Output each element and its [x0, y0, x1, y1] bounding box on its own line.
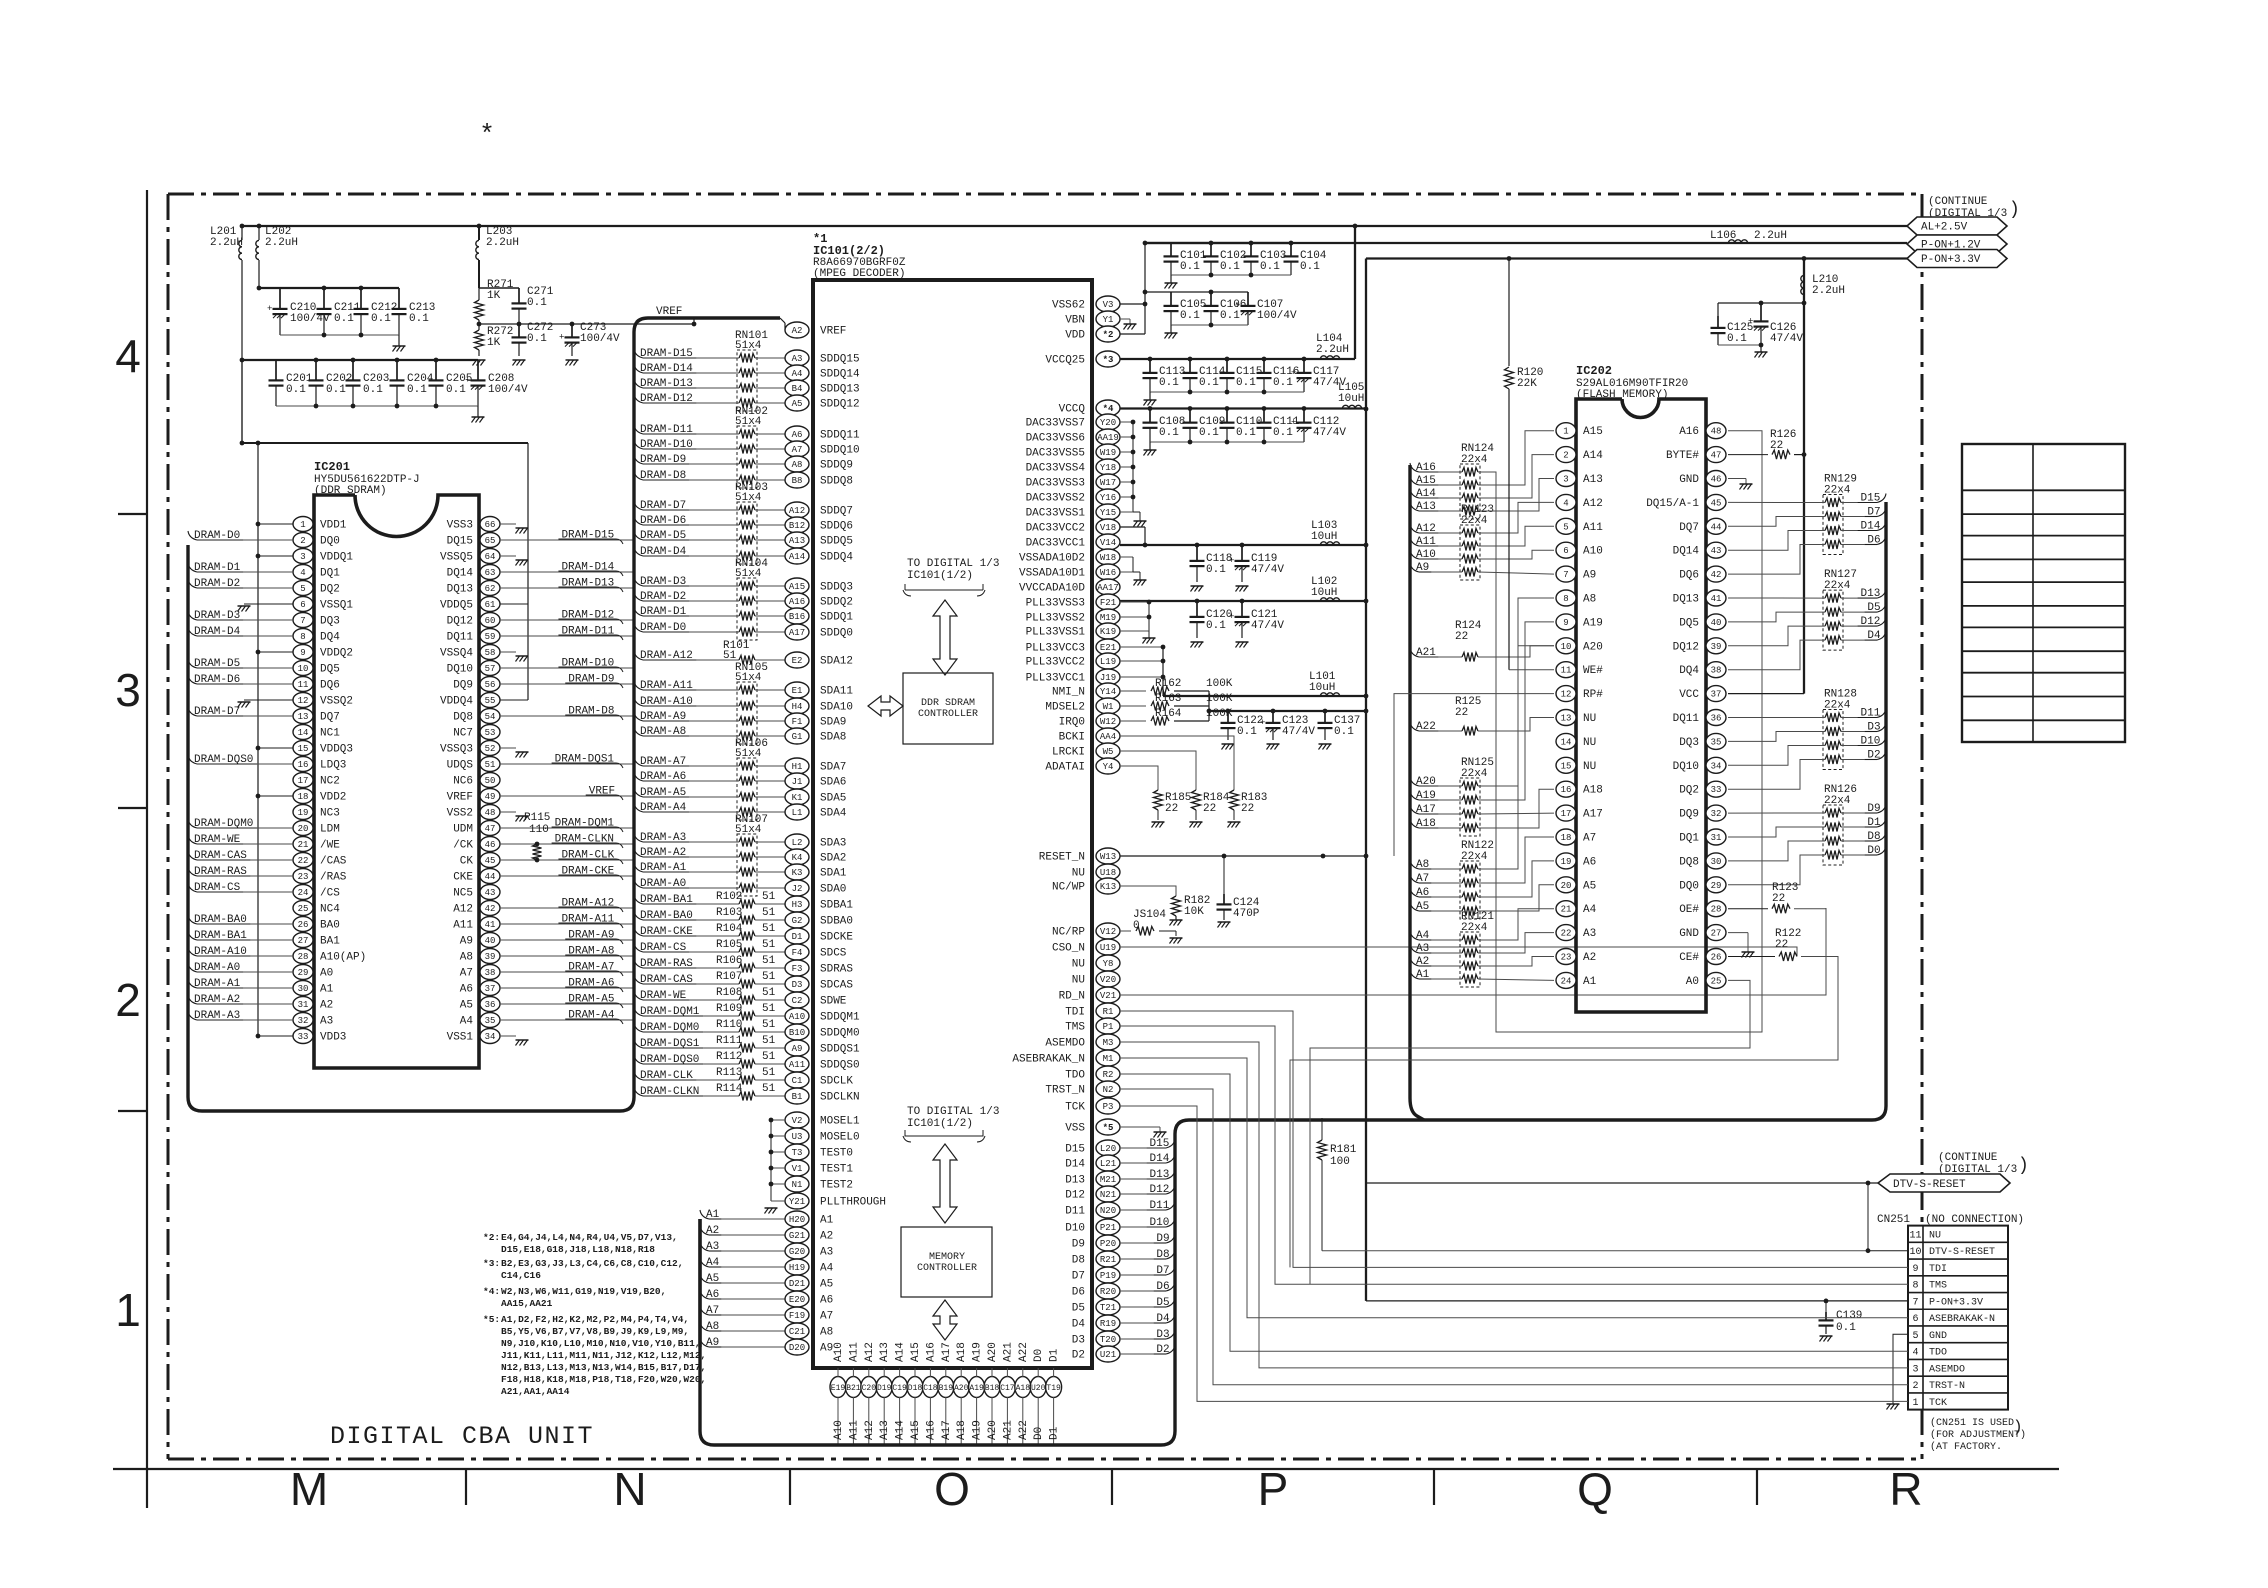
- svg-text:DQ5: DQ5: [320, 664, 340, 676]
- svg-text:2: 2: [300, 536, 305, 546]
- IC101 pin C21 A8: [785, 1323, 809, 1339]
- svg-text:16: 16: [298, 760, 309, 770]
- IC202 pin 4 A12: [1556, 494, 1576, 510]
- net flag AL+2.5V: [1907, 217, 2007, 235]
- IC101 pin T3 TEST0: [785, 1144, 809, 1160]
- IC101 pin V1 TEST1: [785, 1160, 809, 1176]
- svg-text:D9: D9: [1072, 1239, 1085, 1251]
- IC101 pin Y20 DAC33VSS7: [1096, 414, 1120, 430]
- svg-text:DQ2: DQ2: [320, 584, 340, 596]
- capacitor C105: [1170, 292, 1172, 306]
- svg-text:DQ14: DQ14: [1673, 546, 1700, 558]
- svg-text:18: 18: [298, 792, 309, 802]
- svg-text:DAC33VSS2: DAC33VSS2: [1026, 493, 1085, 505]
- IC101 pin R1 TDI: [1096, 1003, 1120, 1019]
- svg-text:2: 2: [1563, 451, 1568, 461]
- IC201 pin 14 NC1: [293, 725, 313, 740]
- svg-text:7: 7: [1912, 1297, 1918, 1308]
- svg-text:TDO: TDO: [1065, 1070, 1085, 1082]
- svg-text:A9: A9: [1416, 562, 1429, 574]
- svg-text:0.1: 0.1: [409, 313, 429, 325]
- IC201 pin 3 VDDQ1: [293, 549, 313, 564]
- wire IC201 pin 60 to bus, label DRAM-D12: [500, 619, 634, 621]
- svg-text:T19: T19: [1046, 1384, 1061, 1393]
- IC101 pin G20 A3: [785, 1243, 809, 1259]
- wire RD_N long to OE#: [1120, 908, 1826, 995]
- IC201 pin 42 A12: [480, 901, 500, 916]
- svg-text:TRST-N: TRST-N: [1929, 1381, 1965, 1392]
- svg-text:LDQ3: LDQ3: [320, 760, 346, 772]
- IC101 pin W16 VSSADA10D1: [1096, 564, 1120, 580]
- wire CE# route down-left: [1290, 957, 1838, 1268]
- svg-text:4: 4: [300, 568, 305, 578]
- inductor L201: [241, 226, 243, 240]
- svg-text:DAC33VSS6: DAC33VSS6: [1026, 433, 1085, 445]
- svg-text:1: 1: [1563, 427, 1568, 437]
- svg-text:O: O: [934, 1463, 970, 1515]
- wire VCC pin37 to L210 rail: [1728, 693, 1804, 695]
- IC101 pin G2 SDBA0: [785, 912, 809, 928]
- svg-text:D4: D4: [1156, 1313, 1170, 1325]
- svg-text:25: 25: [1711, 976, 1722, 986]
- svg-text:51: 51: [762, 907, 776, 919]
- IC101 pin Y1 VBN: [1096, 311, 1120, 327]
- svg-text:DQ13: DQ13: [1673, 594, 1699, 606]
- svg-text:MDSEL2: MDSEL2: [1045, 702, 1085, 714]
- net flag DRAM-D7 (IC201 left): [188, 707, 197, 716]
- svg-text:A9: A9: [460, 936, 473, 948]
- svg-text:RESET_N: RESET_N: [1039, 852, 1085, 864]
- svg-text:PLL33VSS3: PLL33VSS3: [1026, 598, 1085, 610]
- dash-dot schematic frame top: [168, 193, 1922, 196]
- svg-text:A11: A11: [1583, 522, 1603, 534]
- border row tick y514: [118, 513, 147, 515]
- svg-text:A6: A6: [820, 1295, 833, 1307]
- IC101 pin L20 D15: [1096, 1140, 1120, 1156]
- svg-text:VSSADA10D2: VSSADA10D2: [1019, 553, 1085, 565]
- svg-text:22: 22: [1772, 893, 1785, 905]
- svg-text:1: 1: [115, 1284, 141, 1336]
- IC101 pin F1 SDA9: [785, 713, 809, 729]
- net flag A2 (IC202): [1410, 957, 1419, 966]
- IC101 pin A8 SDDQ9: [785, 456, 809, 472]
- svg-text:SDDQ8: SDDQ8: [820, 476, 853, 488]
- svg-text:D13: D13: [1861, 588, 1881, 600]
- svg-text:A15: A15: [910, 1420, 922, 1440]
- wire WE# pin11 to R120: [1509, 669, 1554, 671]
- svg-text:A15: A15: [910, 1342, 922, 1362]
- IC201 pin 61 VDDQ5: [480, 597, 500, 612]
- border row tick y1111: [118, 1110, 147, 1112]
- wire IC201 pin 62 to bus, label DRAM-D13: [500, 587, 634, 589]
- svg-text:A17: A17: [941, 1342, 953, 1362]
- wire IC201 pin 54 to bus, label DRAM-D8: [500, 715, 634, 717]
- svg-text:CE#: CE#: [1679, 952, 1699, 964]
- svg-text:P20: P20: [1100, 1239, 1116, 1249]
- svg-text:VSSQ3: VSSQ3: [440, 744, 473, 756]
- net flag DRAM-D6 to B12: [634, 516, 643, 525]
- svg-text:22x4: 22x4: [1461, 768, 1488, 780]
- IC201 pin 37 A6: [480, 981, 500, 996]
- IC101 pin J1 SDA6: [785, 773, 809, 789]
- svg-text:2: 2: [1912, 1381, 1918, 1392]
- wire IC202 pin 33 DQ2 to D2: [1728, 760, 1825, 790]
- rail down right side of IC201 (VDDQ): [527, 443, 529, 604]
- svg-text:34: 34: [485, 1032, 496, 1042]
- net flag DRAM-A8 to G1: [634, 727, 643, 736]
- svg-text:45: 45: [1711, 498, 1722, 508]
- svg-text:LDM: LDM: [320, 824, 340, 836]
- IC202 pin 35 DQ3: [1706, 733, 1726, 749]
- IC202 pin 21 A4: [1556, 901, 1576, 917]
- IC201 pin 35 A4: [480, 1013, 500, 1028]
- svg-text:R105: R105: [716, 939, 742, 951]
- net flag DRAM-A3 (IC201 left): [188, 1011, 197, 1020]
- svg-text:DRAM-CKE: DRAM-CKE: [561, 866, 614, 878]
- svg-text:A16: A16: [925, 1342, 937, 1362]
- svg-text:A12: A12: [864, 1342, 876, 1362]
- svg-text:F21: F21: [1100, 598, 1116, 608]
- IC101 pin W5 LRCKI: [1096, 743, 1120, 759]
- svg-text:100: 100: [1330, 1156, 1350, 1168]
- svg-text:G20: G20: [789, 1247, 805, 1257]
- svg-text:DRAM-RAS: DRAM-RAS: [640, 958, 693, 970]
- svg-text:SDA2: SDA2: [820, 853, 846, 865]
- svg-text:SDCS: SDCS: [820, 948, 847, 960]
- svg-text:13: 13: [1561, 714, 1572, 724]
- svg-text:IC101(2/2): IC101(2/2): [813, 244, 885, 258]
- svg-text:22: 22: [1455, 631, 1468, 643]
- IC202 pin 38 DQ4: [1706, 662, 1726, 678]
- net flag A13 (IC202): [1410, 502, 1419, 511]
- svg-text:W2,N3,W6,W11,G19,N19,V19,B20,: W2,N3,W6,W11,G19,N19,V19,B20,: [501, 1286, 666, 1297]
- IC201 outer bus loop: [188, 318, 780, 1111]
- svg-text:A7: A7: [706, 1305, 719, 1317]
- IC101 pin E20 A6: [785, 1291, 809, 1307]
- svg-text:DRAM-A0: DRAM-A0: [194, 962, 240, 974]
- IC201 pin 8 DQ4: [293, 629, 313, 644]
- net flag D9: [1877, 804, 1886, 813]
- net flag DRAM-D6 (IC201 left): [188, 675, 197, 684]
- svg-text:J11,K11,L11,M11,N11,J12,K12,L1: J11,K11,L11,M11,N11,J12,K12,L12,M12,: [501, 1350, 706, 1361]
- IC201 pin 49 VREF: [480, 789, 500, 804]
- svg-text:DRAM-D15: DRAM-D15: [561, 530, 614, 542]
- capacitor C205: [435, 360, 437, 380]
- svg-text:C1: C1: [792, 1076, 803, 1086]
- dash-dot schematic frame bottom: [168, 1458, 1922, 1461]
- svg-text:PLL33VCC1: PLL33VCC1: [1026, 673, 1086, 685]
- IC201 pin 40 A9: [480, 933, 500, 948]
- wire IC201 pin 42 to bus, label DRAM-A12: [500, 907, 634, 909]
- svg-text:PLL33VSS1: PLL33VSS1: [1026, 627, 1086, 639]
- rail PLL33VCC pins: [1162, 647, 1164, 696]
- svg-text:TCK: TCK: [1065, 1102, 1085, 1114]
- svg-text:R111: R111: [716, 1035, 743, 1047]
- ground CN251 pin5: [1887, 1403, 1900, 1405]
- svg-text:VCCQ25: VCCQ25: [1045, 355, 1085, 367]
- IC101 pin H3 SDBA1: [785, 896, 809, 912]
- svg-text:22x4: 22x4: [1824, 485, 1851, 497]
- svg-text:51: 51: [762, 955, 776, 967]
- svg-text:51: 51: [762, 1083, 776, 1095]
- IC201 pin 59 DQ11: [480, 629, 500, 644]
- wire IC202 pin 35 DQ3 to D3: [1728, 732, 1825, 742]
- svg-text:DQ8: DQ8: [1679, 856, 1699, 868]
- wire ASEMDO IC101 to CN251: [1120, 1042, 1908, 1368]
- IC101 pin A17 SDDQ0: [785, 624, 809, 640]
- svg-text:0.1: 0.1: [1206, 620, 1226, 632]
- ground C105 bank: [1170, 325, 1172, 333]
- IC101 pin L2 SDA3: [785, 834, 809, 850]
- svg-text:A9: A9: [706, 1337, 719, 1349]
- svg-text:A8: A8: [460, 952, 473, 964]
- svg-text:35: 35: [485, 1016, 496, 1026]
- IC202 pin 24 A1: [1556, 972, 1576, 988]
- capacitor C116: [1263, 359, 1265, 373]
- IC101 pin M1 ASEBRAKAK_N: [1096, 1050, 1120, 1066]
- wire RP# pin12: [1394, 694, 1554, 856]
- IC201 pin 6 VSSQ1: [293, 597, 313, 612]
- IC101 pin *3 VCCQ25: [1096, 351, 1120, 367]
- svg-text:22K: 22K: [1517, 378, 1537, 390]
- net flag P-ON+3.3V: [1907, 250, 2007, 268]
- rail for MOSEL/TEST pins: [770, 1120, 772, 1201]
- svg-text:D9: D9: [1867, 803, 1880, 815]
- IC201 pin 9 VDDQ2: [293, 645, 313, 660]
- svg-text:0.1: 0.1: [363, 384, 383, 396]
- svg-text:48: 48: [485, 808, 496, 818]
- svg-text:VREF: VREF: [820, 326, 846, 338]
- svg-text:A17: A17: [1416, 804, 1436, 816]
- net flag DRAM-BA0 (IC201 left): [188, 915, 197, 924]
- inductor L203: [477, 224, 482, 229]
- IC202 pin 27 GND: [1706, 925, 1726, 941]
- svg-text:0.1: 0.1: [1273, 377, 1293, 389]
- IC101 pin A14 SDDQ4: [785, 548, 809, 564]
- IC101 body outline: [813, 280, 1092, 1368]
- IC202 pin 23 A2: [1556, 949, 1576, 965]
- svg-text:DRAM-D2: DRAM-D2: [194, 578, 240, 590]
- wire IC201 pin 45 to bus, label DRAM-CLK: [500, 859, 634, 861]
- svg-text:G21: G21: [789, 1231, 805, 1241]
- A1-A9 flag bus vertical: [698, 1219, 701, 1347]
- svg-text:NC/RP: NC/RP: [1052, 927, 1085, 939]
- svg-text:61: 61: [485, 600, 496, 610]
- IC101 pin K1 SDA5: [785, 789, 809, 805]
- IC101 pin V14 DAC33VCC1: [1096, 534, 1120, 550]
- svg-text:TEST2: TEST2: [820, 1180, 853, 1192]
- IC101 pin AA4 BCKI: [1096, 728, 1120, 744]
- svg-text:F18,H18,K18,M18,P18,T18,F20,W2: F18,H18,K18,M18,P18,T18,F20,W20,W20,: [501, 1374, 706, 1385]
- IC201 pin 30 A1: [293, 981, 313, 996]
- net flag A19 (IC202): [1410, 791, 1419, 800]
- svg-text:21: 21: [298, 840, 309, 850]
- svg-text:H3: H3: [792, 900, 803, 910]
- svg-text:32: 32: [298, 1016, 309, 1026]
- ground at IC201 pin 66: [500, 523, 516, 525]
- IC202 pin 40 DQ5: [1706, 614, 1726, 630]
- IC101 pin T21 D5: [1096, 1299, 1120, 1315]
- svg-text:BCKI: BCKI: [1059, 732, 1085, 744]
- svg-text:DIGITAL CBA UNIT: DIGITAL CBA UNIT: [330, 1422, 594, 1451]
- svg-text:A16: A16: [1416, 462, 1436, 474]
- inductor L202: [258, 226, 260, 240]
- IC201 pin 13 DQ7: [293, 709, 313, 724]
- svg-text:44: 44: [1711, 522, 1722, 532]
- svg-text:VDD3: VDD3: [320, 1032, 346, 1044]
- IC101 pin V18 DAC33VCC2: [1096, 519, 1120, 535]
- IC101 pin B1 SDCLKN: [785, 1088, 809, 1104]
- wire IC202 pin 34 DQ10 to D10: [1728, 746, 1825, 766]
- svg-text:F3: F3: [792, 964, 803, 974]
- svg-text:NC2: NC2: [320, 776, 340, 788]
- svg-text:B16: B16: [789, 612, 805, 622]
- svg-text:DRAM-A5: DRAM-A5: [568, 994, 614, 1006]
- svg-text:N9,J10,K10,L10,M10,N10,V10,Y10: N9,J10,K10,L10,M10,N10,V10,Y10,B11,: [501, 1338, 701, 1349]
- IC101 pin L19 PLL33VCC2: [1096, 653, 1120, 669]
- net flag A16 (IC202): [1410, 463, 1419, 472]
- svg-text:9: 9: [300, 648, 305, 658]
- capacitor C113: [1149, 359, 1151, 373]
- wire VVCCADA10D to L102: [1120, 600, 1366, 602]
- svg-text:K4: K4: [792, 853, 803, 863]
- svg-text:VSSQ1: VSSQ1: [320, 600, 353, 612]
- net flag A9 (IC202): [1410, 563, 1419, 572]
- IC101 pin N21 D12: [1096, 1186, 1120, 1202]
- svg-text:/CS: /CS: [320, 888, 340, 900]
- node wire y=711: [1209, 710, 1366, 712]
- svg-text:W19: W19: [1100, 448, 1116, 458]
- svg-text:A7: A7: [792, 445, 803, 455]
- svg-text:B2,E3,G3,J3,L3,C4,C6,C8,C10,C1: B2,E3,G3,J3,L3,C4,C6,C8,C10,C12,: [501, 1258, 683, 1269]
- svg-text:D7: D7: [1156, 1265, 1169, 1277]
- svg-text:A5: A5: [820, 1279, 833, 1291]
- ground for PLLTHROUGH rail: [765, 1207, 778, 1209]
- IC201 pin 44 CKE: [480, 869, 500, 884]
- svg-text:DRAM-D8: DRAM-D8: [640, 470, 686, 482]
- wire IC201 pin 35 to bus, label DRAM-A4: [500, 1019, 634, 1021]
- IC101 pin K3 SDA1: [785, 864, 809, 880]
- net flag DRAM-A0 (IC201 left): [188, 963, 197, 972]
- svg-text:U19: U19: [1100, 943, 1116, 953]
- svg-text:A2: A2: [1583, 952, 1596, 964]
- svg-text:42: 42: [485, 904, 496, 914]
- svg-text:A10: A10: [833, 1420, 845, 1440]
- svg-text:B21: B21: [846, 1384, 861, 1393]
- ground at IC201 pin 58: [500, 651, 516, 653]
- svg-text:51: 51: [762, 1067, 776, 1079]
- IC202 pin 13 NU: [1556, 710, 1576, 726]
- D2-D15 flags (IC101 right): [1166, 1139, 1175, 1148]
- svg-text:DQ9: DQ9: [1679, 809, 1699, 821]
- IC201 pin 54 DQ8: [480, 709, 500, 724]
- svg-text:D9: D9: [1156, 1233, 1169, 1245]
- IC101 pin K13 NC/WP: [1096, 878, 1120, 894]
- IC201 pin 52 VSSQ3: [480, 741, 500, 756]
- wire IC201 pin 39 to bus, label DRAM-A8: [500, 955, 634, 957]
- svg-text:DQ7: DQ7: [320, 712, 340, 724]
- net flag A18 (IC202): [1410, 819, 1419, 828]
- rail down left side of IC201 (VDD): [257, 443, 259, 1036]
- capacitor C202: [315, 360, 317, 380]
- svg-text:+: +: [1235, 301, 1240, 311]
- svg-text:IC101(1/2): IC101(1/2): [907, 570, 973, 582]
- svg-text:100K: 100K: [1206, 678, 1233, 690]
- IC101 pin R2 TDO: [1096, 1066, 1120, 1082]
- resistor R271 1K: [475, 300, 484, 320]
- net flag D15: [1877, 494, 1886, 503]
- svg-text:DRAM-A3: DRAM-A3: [640, 832, 686, 844]
- svg-text:A19: A19: [972, 1420, 984, 1440]
- double arrow horizontal to DDR controller: [868, 696, 903, 716]
- svg-text:37: 37: [485, 984, 496, 994]
- svg-text:13: 13: [298, 712, 309, 722]
- svg-text:A21: A21: [1002, 1342, 1014, 1362]
- svg-text:D14: D14: [1150, 1153, 1170, 1165]
- svg-text:DRAM-D14: DRAM-D14: [561, 562, 614, 574]
- svg-text:DRAM-CLK: DRAM-CLK: [640, 1070, 693, 1082]
- IC201 pin 10 DQ5: [293, 661, 313, 676]
- svg-text:U18: U18: [1100, 868, 1116, 878]
- svg-text:R106: R106: [716, 955, 742, 967]
- svg-text:D1: D1: [792, 932, 803, 942]
- svg-text:SDCLKN: SDCLKN: [820, 1092, 860, 1104]
- svg-text:DRAM-D12: DRAM-D12: [561, 610, 614, 622]
- IC201 pin 7 DQ3: [293, 613, 313, 628]
- svg-text:D15,E18,G18,J18,L18,N18,R18: D15,E18,G18,J18,L18,N18,R18: [501, 1244, 655, 1255]
- svg-text:SDA5: SDA5: [820, 793, 846, 805]
- svg-text:B10: B10: [789, 1028, 805, 1038]
- svg-text:VSSADA10D1: VSSADA10D1: [1019, 568, 1085, 580]
- svg-text:B5,Y5,V6,B7,V7,V8,B9,J9,K9,L9,: B5,Y5,V6,B7,V7,V8,B9,J9,K9,L9,M9,: [501, 1326, 689, 1337]
- svg-text:R1: R1: [1103, 1007, 1114, 1017]
- IC202 pin 8 A8: [1556, 590, 1576, 606]
- capacitor C211: [323, 288, 325, 309]
- svg-text:CKE: CKE: [453, 872, 473, 884]
- svg-text:66: 66: [485, 520, 496, 530]
- svg-text:A8: A8: [1416, 859, 1429, 871]
- svg-text:24: 24: [298, 888, 309, 898]
- svg-text:A18: A18: [1583, 785, 1603, 797]
- svg-text:15: 15: [298, 744, 309, 754]
- svg-text:P1: P1: [1103, 1022, 1114, 1032]
- svg-text:DRAM-DQM1: DRAM-DQM1: [640, 1006, 700, 1018]
- svg-text:ASEMDO: ASEMDO: [1045, 1038, 1085, 1050]
- svg-text:A3: A3: [320, 1016, 333, 1028]
- svg-text:A3: A3: [792, 354, 803, 364]
- wire IC201 pin 47 to bus, label DRAM-DQM1: [500, 827, 634, 829]
- ground R182: [1175, 916, 1177, 920]
- wire IC202 pin 39 DQ12 to D12: [1728, 626, 1825, 646]
- svg-text:DRAM-DQS0: DRAM-DQS0: [640, 1054, 699, 1066]
- bus IC202 left flags vertical: [1410, 465, 1424, 1120]
- wire DAC33VCC1 to L103: [1120, 544, 1366, 546]
- svg-text:48: 48: [1711, 427, 1722, 437]
- svg-text:A12: A12: [1416, 523, 1436, 535]
- svg-text:C21: C21: [789, 1327, 805, 1337]
- IC201 pin 38 A7: [480, 965, 500, 980]
- svg-text:*5: *5: [1103, 1123, 1114, 1133]
- capacitor C103: [1250, 243, 1252, 256]
- svg-text:35: 35: [1711, 737, 1722, 747]
- svg-text:100/4V: 100/4V: [488, 384, 528, 396]
- wire BCKI down to R183: [1120, 736, 1234, 790]
- border row tick y808: [118, 807, 147, 809]
- svg-text:NU: NU: [1072, 975, 1085, 987]
- capacitor C102: [1210, 243, 1212, 256]
- svg-text:DQ6: DQ6: [1679, 570, 1699, 582]
- svg-text:A11: A11: [1416, 536, 1436, 548]
